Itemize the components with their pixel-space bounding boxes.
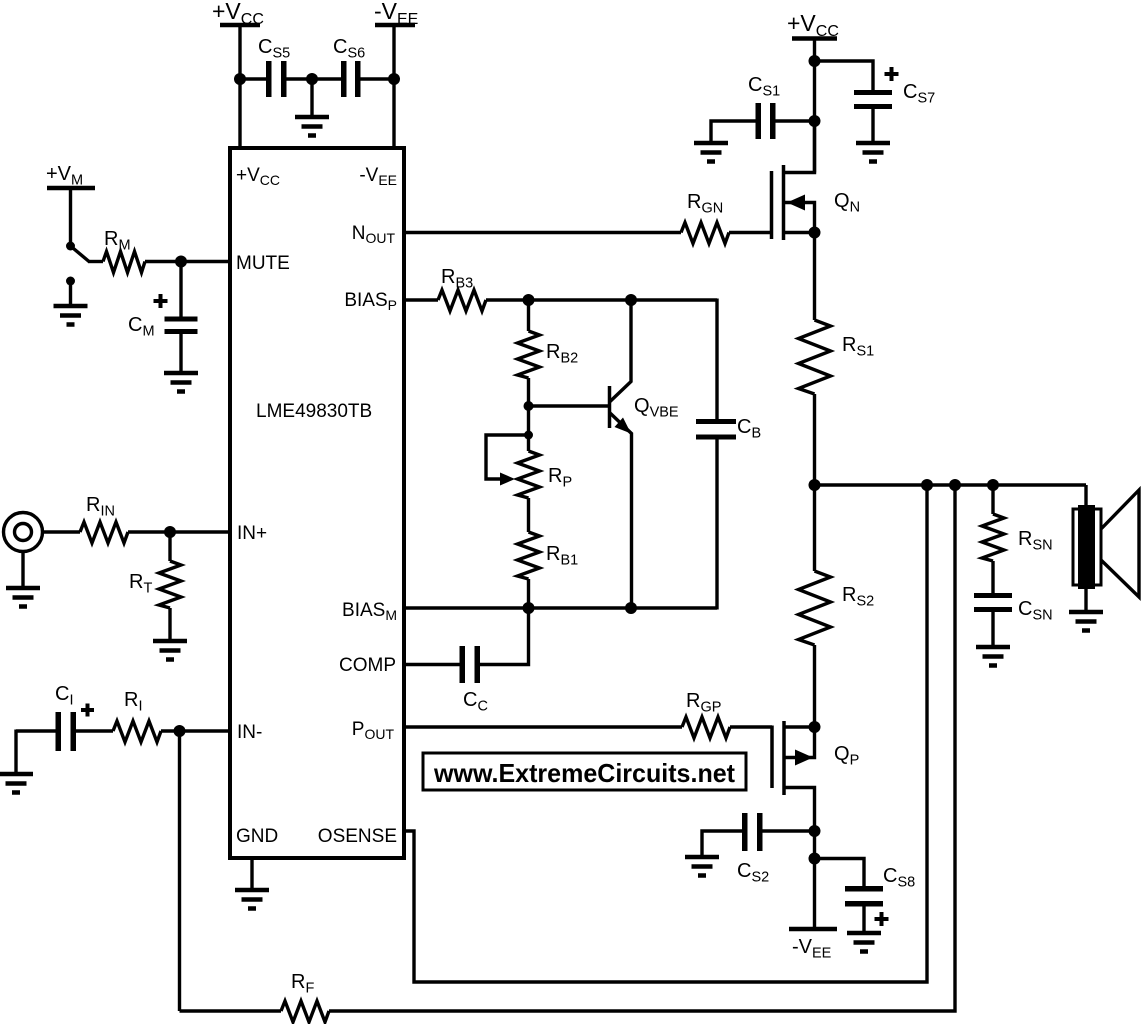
wire output to speaker <box>1084 485 1087 508</box>
capacitor CM polarity plus <box>154 294 168 308</box>
wire RF to output node <box>329 485 955 1011</box>
svg-text:GND: GND <box>236 826 278 847</box>
node -VEE bottom rail bar <box>789 927 837 932</box>
wire feedback node down to RF <box>178 731 181 1011</box>
wire RSN to CSN <box>991 561 994 593</box>
wire BIASM rail <box>404 606 717 609</box>
ground of CS2 <box>685 857 719 876</box>
capacitor CS1 plates <box>756 103 762 139</box>
transistor QN source stub <box>784 231 815 234</box>
junction dot BIASM/QVBE emitter <box>625 602 637 614</box>
node switch ground throw dot <box>66 277 75 286</box>
speaker LS1 magnet bar <box>1078 505 1095 589</box>
capacitor CB plates <box>696 419 736 424</box>
transistor QP drain stub <box>784 788 815 832</box>
wire CS6 to -VEE rail <box>361 77 395 80</box>
wire center tap down <box>310 79 313 115</box>
capacitor CI plates <box>56 712 62 751</box>
junction dot output/RF <box>949 479 961 491</box>
ground of CI <box>0 774 33 793</box>
potentiometer RP element <box>518 451 540 498</box>
node input jack outer ring <box>4 513 43 552</box>
wire CS1 left lead <box>711 121 756 141</box>
wire RB2 top lead <box>527 300 530 331</box>
capacitor CS5 plates <box>266 61 272 97</box>
ground of jack <box>6 588 40 607</box>
wire GND pin down <box>250 858 253 888</box>
wire node down to RT <box>168 532 171 561</box>
op-amp U1 LME49830TB body <box>230 148 404 858</box>
capacitor CS2 plates <box>742 813 748 851</box>
wire CS2 node down <box>813 831 816 859</box>
speaker LS1 driver body <box>1073 509 1101 585</box>
junction dot output/RSN <box>987 479 999 491</box>
resistor RGP <box>682 717 730 738</box>
wire QN source to RS1 <box>813 233 816 321</box>
capacitor CS7 plates <box>854 90 892 95</box>
transistor QP channel bar <box>782 721 786 795</box>
wire to CS7 <box>815 61 874 90</box>
wire RS1 to output node <box>813 394 816 485</box>
transistor QVBE emitter arrowhead <box>615 418 632 434</box>
capacitor CSN plates <box>974 593 1012 598</box>
wire RGP to QP gate <box>730 725 772 728</box>
node RP wiper arrowhead <box>500 473 515 486</box>
svg-text:IN+: IN+ <box>237 523 267 544</box>
wire RB2 to RP <box>527 378 530 451</box>
transistor QP body stub <box>784 727 815 758</box>
junction dot IN+/RT <box>164 526 176 538</box>
svg-text:IN-: IN- <box>237 722 262 743</box>
speaker LS1 cone <box>1101 490 1139 597</box>
wire RI to IN- pin <box>161 729 230 732</box>
wire BIASP rail to CB <box>486 298 717 301</box>
capacitor CC plates <box>460 646 466 683</box>
junction dot center ground tap <box>306 73 318 85</box>
wire RM to MUTE pin <box>145 260 230 263</box>
wire RIN to IN+ pin <box>128 530 230 533</box>
capacitor CS8 polarity plus <box>875 912 889 926</box>
wire output to RS2 <box>813 485 816 571</box>
ground of GND pin <box>235 890 269 909</box>
wire CS8 lead <box>815 859 865 887</box>
svg-text:MUTE: MUTE <box>236 253 290 274</box>
capacitor CS8 plates <box>845 886 883 892</box>
resistor RB2 <box>518 331 540 378</box>
junction dot CS8 node <box>809 853 821 865</box>
wire CM to ground <box>179 334 182 371</box>
node -VEE top rail bar <box>375 23 415 28</box>
wire RP to RB1 <box>527 498 530 532</box>
resistor RGN <box>681 223 729 244</box>
capacitor CM plates <box>165 317 198 322</box>
ground of CS7 <box>856 143 890 162</box>
wire switch blade <box>71 246 90 262</box>
wire RGN to QN gate <box>729 231 772 234</box>
svg-text:www.ExtremeCircuits.net: www.ExtremeCircuits.net <box>433 758 735 788</box>
wire CS7 to ground <box>871 109 874 141</box>
wire CB bottom lead <box>715 440 718 610</box>
svg-text:COMP: COMP <box>339 655 396 676</box>
junction dot QP source <box>809 721 821 733</box>
transistor QP source stub <box>784 725 815 728</box>
wire CS1 right lead <box>776 119 815 122</box>
junction dot CS1 node <box>809 115 821 127</box>
wire POUT pin to RGP <box>404 725 682 728</box>
node switch pole dot <box>66 242 75 251</box>
transistor QN drain stub <box>784 121 815 173</box>
junction dot output/RS <box>809 479 821 491</box>
svg-text:LME49830TB: LME49830TB <box>256 401 372 422</box>
resistor RS1 <box>799 320 831 394</box>
svg-text:OSENSE: OSENSE <box>318 826 397 847</box>
resistor RB3 <box>438 290 486 311</box>
transistor QN channel bar <box>782 165 786 240</box>
wire jack shield down <box>21 552 24 587</box>
junction dot IN-/feedback <box>174 725 186 737</box>
wire CS2 left lead <box>702 831 742 855</box>
transistor QP body arrowhead <box>795 750 813 766</box>
wire output node to RSN <box>991 485 994 514</box>
node +VM rail bar <box>47 186 95 191</box>
capacitor CI polarity plus <box>81 704 94 717</box>
ground of CSN <box>976 647 1010 666</box>
wire RP wiper arm <box>486 435 529 479</box>
ground of mute switch <box>54 306 88 325</box>
wire ground throw down <box>69 281 72 304</box>
wire blade to RM <box>88 260 103 263</box>
transistor QN body stub <box>784 203 815 233</box>
resistor RS2 <box>799 571 831 645</box>
node input jack center pin <box>15 524 32 541</box>
node watermark box <box>423 753 746 790</box>
wire CC to BIASM node <box>480 608 529 665</box>
ground of speaker <box>1069 612 1103 631</box>
junction dot BIASM/RB1 <box>523 602 535 614</box>
wire CI to RI <box>76 729 113 732</box>
wire OSENSE pin loop <box>404 485 927 982</box>
wire RF bottom run <box>180 1009 282 1012</box>
wire RT to ground <box>168 608 171 639</box>
junction dot MUTE/CM <box>175 256 187 268</box>
wire CI left lead <box>16 729 56 732</box>
wire BIASP pin to RB3 <box>404 298 438 301</box>
junction dot BIASP/QVBE collector <box>625 294 637 306</box>
wire speaker to ground <box>1084 589 1087 610</box>
wire output node rail <box>815 483 1087 486</box>
wire RB1 to BIASM rail <box>527 579 530 608</box>
ground center tap <box>295 117 329 136</box>
resistor RF <box>281 1001 329 1022</box>
wire COMP pin to CC <box>404 663 460 666</box>
wire base node to QVBE <box>529 404 609 407</box>
ground of RT <box>153 641 187 660</box>
resistor RSN <box>982 514 1004 561</box>
transistor QN gate bar <box>770 171 774 239</box>
ground of CM <box>164 373 198 392</box>
resistor RIN <box>80 522 128 543</box>
wire NOUT pin to RGN <box>404 231 681 234</box>
wire RS2 to QP source <box>813 645 816 727</box>
wire jack to RIN <box>43 530 80 533</box>
junction dot output/OSENSE <box>921 479 933 491</box>
junction dot CS2 node <box>809 825 821 837</box>
transistor QVBE base bar <box>608 386 612 428</box>
wire +VCC rail down to IC <box>238 25 241 150</box>
wire -VEE rail down to IC <box>392 25 395 150</box>
junction dot +VCC/CS7 <box>809 55 821 67</box>
junction dot RP wiper node <box>524 431 533 440</box>
resistor RT <box>159 561 181 608</box>
junction dot +VCC/CS5 <box>234 73 246 85</box>
junction dot CS6/-VEE <box>388 73 400 85</box>
transistor QP gate bar <box>770 726 774 789</box>
resistor RM <box>103 252 145 273</box>
transistor QVBE collector <box>610 300 632 402</box>
wire CI lead down <box>14 730 17 773</box>
wire +VCC right down <box>813 39 816 173</box>
transistor QN body arrowhead <box>787 195 805 211</box>
wire CB top lead <box>715 299 718 420</box>
ground of CS8 <box>847 933 881 952</box>
wire to -VEE rail <box>813 859 816 930</box>
capacitor CS7 polarity plus <box>885 67 899 81</box>
capacitor CS6 plates <box>341 61 347 97</box>
ground of CS1 <box>694 143 728 162</box>
transistor QVBE emitter <box>610 413 632 609</box>
junction dot QN source <box>809 227 821 239</box>
junction dot BIASP/RB2 <box>523 294 535 306</box>
junction dot QVBE base node <box>524 401 534 411</box>
wire +VM down to switch <box>69 188 72 246</box>
wire CSN to ground <box>991 612 994 645</box>
wire CS5 to CS6 <box>287 77 342 80</box>
node +VCC top-left rail bar <box>220 23 260 28</box>
wire CS2 right lead <box>763 829 815 832</box>
resistor RI <box>113 721 161 742</box>
resistor RB1 <box>518 532 540 579</box>
wire MUTE node down to CM <box>179 262 182 317</box>
node +VCC right rail bar <box>792 36 837 41</box>
wire +VCC to CS5 <box>240 77 266 80</box>
wire CS8 to ground <box>862 907 865 932</box>
